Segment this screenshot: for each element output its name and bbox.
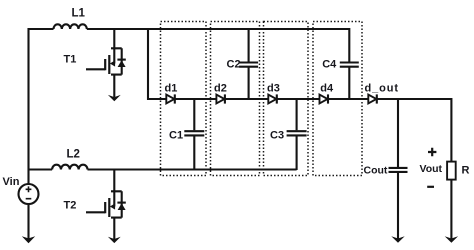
svg-text:Vout: Vout (420, 163, 443, 175)
inductor L1 (54, 24, 87, 29)
dashed cell box 2 (211, 22, 260, 176)
diode d2 (216, 94, 225, 103)
ground arrow (Vin) (22, 236, 35, 243)
svg-text:Vin: Vin (3, 176, 20, 188)
diode d3 (268, 94, 277, 103)
svg-text:C4: C4 (322, 59, 337, 71)
capacitor C1 (184, 99, 204, 170)
dashed cell box 3 (264, 22, 309, 176)
svg-text:d3: d3 (267, 83, 280, 95)
transistor T1 (86, 29, 126, 97)
wire: Vin bottom lead (27, 204, 29, 239)
ground arrow (Cout) (391, 236, 404, 243)
svg-text:L2: L2 (67, 149, 80, 161)
capacitor Cout (389, 99, 408, 239)
diode d4 (320, 94, 329, 103)
svg-text:R: R (462, 165, 470, 177)
svg-text:T1: T1 (64, 54, 77, 66)
dashed cell box 1 (161, 22, 207, 176)
svg-text:d4: d4 (320, 83, 334, 95)
dashed cell box 4 (313, 22, 362, 176)
svg-text:C1: C1 (169, 130, 183, 142)
wire: output branch down to load (450, 98, 452, 162)
svg-text:d1: d1 (165, 83, 178, 95)
svg-text:C3: C3 (270, 130, 284, 142)
svg-text:L1: L1 (72, 8, 86, 20)
diode d1 (166, 94, 175, 103)
source Vin (19, 184, 39, 204)
diode d_out (368, 94, 377, 103)
wire: top rail segments (28, 28, 349, 30)
capacitor C4 (340, 28, 359, 99)
ground arrow (R) (445, 236, 458, 243)
label + (output polarity) (428, 148, 436, 156)
ground arrow (T1) (108, 95, 121, 101)
wire: load bottom lead (450, 180, 452, 239)
svg-text:d2: d2 (214, 83, 227, 95)
wire: diode rail (148, 98, 451, 100)
wire: vertical link top rail to diode rail (147, 28, 149, 100)
transistor T2 (86, 170, 126, 240)
ground arrow (T2) (108, 237, 121, 243)
svg-text:T2: T2 (64, 200, 77, 212)
capacitor C3 (287, 99, 307, 170)
capacitor C2 (239, 29, 258, 99)
svg-text:Cout: Cout (364, 165, 388, 177)
wire: middle rail segments (29, 168, 297, 170)
label - (output polarity) (427, 186, 434, 188)
resistor R (447, 162, 456, 180)
inductor L2 (52, 165, 87, 170)
svg-text:C2: C2 (227, 59, 241, 71)
wire: left vertical from top rail to Vin (27, 28, 29, 184)
svg-text:d_out: d_out (365, 83, 399, 95)
